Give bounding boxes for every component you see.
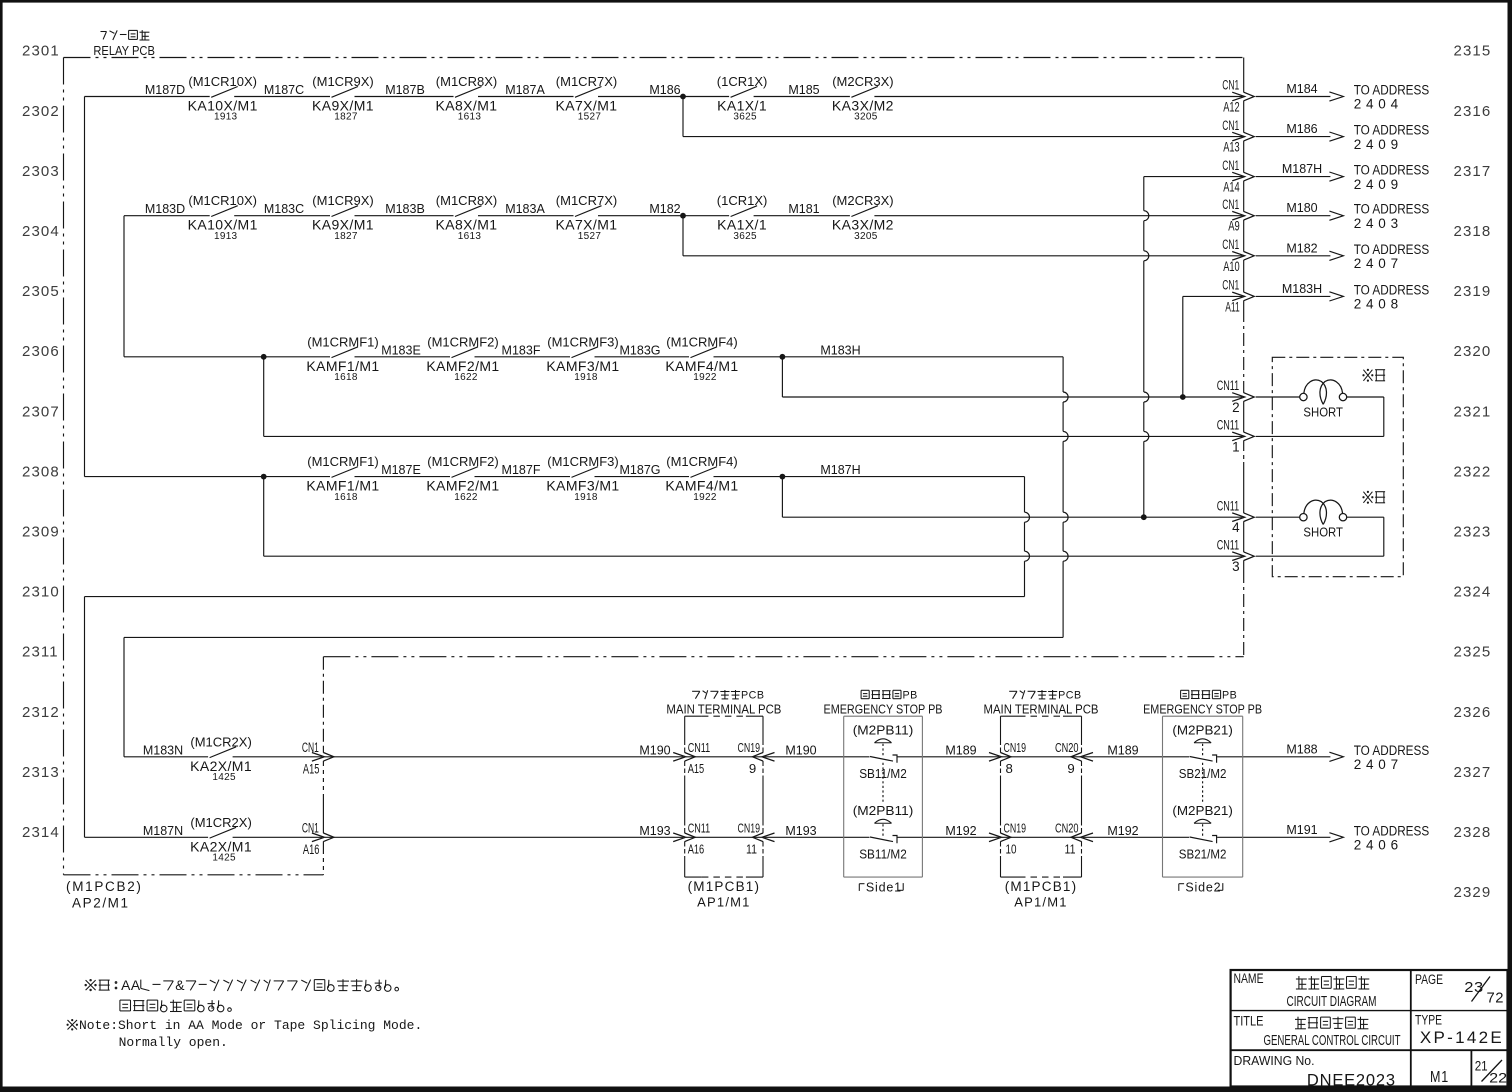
svg-text:(M1PCB1): (M1PCB1) (1005, 879, 1078, 894)
svg-text:M187H: M187H (1282, 162, 1322, 176)
svg-text:MAIN TERMINAL PCB: MAIN TERMINAL PCB (666, 702, 781, 717)
svg-text:CN11: CN11 (1217, 378, 1240, 393)
svg-text:M183N: M183N (143, 743, 183, 757)
svg-text:M191: M191 (1286, 823, 1317, 837)
svg-text:(M1CRMF2): (M1CRMF2) (427, 334, 499, 349)
svg-text:2328: 2328 (1454, 824, 1492, 841)
svg-text:&: & (175, 977, 185, 993)
svg-text:CN19: CN19 (738, 820, 761, 835)
svg-text:2307: 2307 (22, 403, 60, 420)
svg-text:M187C: M187C (264, 83, 304, 97)
svg-text:EMERGENCY STOP PB: EMERGENCY STOP PB (824, 702, 943, 717)
svg-text:2301: 2301 (22, 43, 60, 60)
svg-text:PAGE: PAGE (1415, 972, 1443, 987)
svg-text:M187N: M187N (143, 824, 183, 838)
svg-text:2406: 2406 (1354, 838, 1403, 853)
svg-text:M190: M190 (639, 743, 670, 757)
svg-text:2319: 2319 (1454, 283, 1492, 300)
svg-text:M187H: M187H (820, 463, 860, 477)
svg-text:M1: M1 (1430, 1069, 1449, 1086)
svg-text:2303: 2303 (22, 163, 60, 180)
svg-text:A9: A9 (1228, 219, 1240, 234)
svg-text:PCB: PCB (741, 689, 765, 701)
svg-text:M187B: M187B (385, 83, 425, 97)
svg-text:2403: 2403 (1354, 216, 1403, 231)
svg-text:M182: M182 (1286, 241, 1317, 255)
svg-text:23: 23 (1464, 979, 1484, 996)
svg-text:1425: 1425 (212, 853, 236, 864)
svg-text:TO ADDRESS: TO ADDRESS (1354, 83, 1430, 98)
svg-text:2: 2 (1232, 400, 1240, 415)
svg-text:1618: 1618 (334, 492, 358, 503)
svg-text:M183D: M183D (145, 202, 185, 216)
svg-text:1527: 1527 (578, 231, 602, 242)
svg-text:M183G: M183G (620, 343, 661, 357)
svg-text:2404: 2404 (1354, 97, 1403, 112)
svg-text:M180: M180 (1286, 201, 1317, 215)
svg-text:1922: 1922 (693, 372, 717, 383)
svg-text:1918: 1918 (574, 372, 598, 383)
svg-text:CN11: CN11 (1217, 418, 1240, 433)
svg-text:2315: 2315 (1454, 43, 1492, 60)
svg-text:A14: A14 (1223, 180, 1240, 195)
svg-text:MAIN TERMINAL PCB: MAIN TERMINAL PCB (984, 702, 1099, 717)
svg-text:SB11/M2: SB11/M2 (859, 846, 907, 861)
svg-text:M182: M182 (649, 202, 680, 216)
svg-text:11: 11 (746, 841, 757, 856)
svg-text:M186: M186 (649, 83, 680, 97)
svg-text:(M1CRMF3): (M1CRMF3) (547, 454, 619, 469)
svg-text:1922: 1922 (693, 492, 717, 503)
svg-text:21: 21 (1475, 1057, 1488, 1073)
svg-text:A15: A15 (688, 761, 705, 776)
svg-text:TO ADDRESS: TO ADDRESS (1354, 123, 1430, 138)
svg-text:A16: A16 (303, 842, 320, 857)
svg-text:M189: M189 (1107, 743, 1138, 757)
svg-text:DRAWING No.: DRAWING No. (1234, 1053, 1315, 1068)
svg-text:2304: 2304 (22, 223, 60, 240)
svg-text:AP1/M1: AP1/M1 (697, 895, 750, 910)
svg-text:3625: 3625 (733, 112, 757, 123)
svg-text:A12: A12 (1223, 100, 1240, 115)
svg-text:M181: M181 (788, 202, 819, 216)
svg-text:1913: 1913 (214, 231, 238, 242)
svg-text:1827: 1827 (334, 112, 358, 123)
svg-text:CN1: CN1 (1222, 197, 1239, 212)
svg-text:CN19: CN19 (1004, 820, 1027, 835)
svg-text:CN11: CN11 (688, 740, 711, 755)
svg-text:(M1CR7X): (M1CR7X) (556, 193, 617, 208)
svg-text:3: 3 (1232, 559, 1240, 574)
svg-text:1622: 1622 (454, 372, 478, 383)
svg-text:TO ADDRESS: TO ADDRESS (1354, 282, 1430, 297)
svg-text:M192: M192 (945, 824, 976, 838)
svg-text:(1CR1X): (1CR1X) (717, 74, 768, 89)
svg-text:2409: 2409 (1354, 177, 1403, 192)
svg-text:(M2CR3X): (M2CR3X) (832, 193, 893, 208)
svg-text:(M1CRMF3): (M1CRMF3) (547, 334, 619, 349)
svg-text:M183F: M183F (502, 343, 541, 357)
svg-text:M193: M193 (639, 824, 670, 838)
svg-text:2318: 2318 (1454, 223, 1492, 240)
svg-text:11: 11 (1065, 841, 1076, 856)
svg-text:2329: 2329 (1454, 884, 1492, 901)
svg-text:(M1CRMF4): (M1CRMF4) (666, 454, 738, 469)
svg-text:(M2PB21): (M2PB21) (1172, 723, 1233, 737)
svg-text:2308: 2308 (22, 463, 60, 480)
svg-text:CN1: CN1 (302, 740, 319, 755)
svg-text:M187G: M187G (620, 463, 661, 477)
svg-text:TO ADDRESS: TO ADDRESS (1354, 202, 1430, 217)
svg-text:2309: 2309 (22, 524, 60, 541)
svg-text:2325: 2325 (1454, 644, 1492, 661)
svg-text:(M1CR9X): (M1CR9X) (312, 193, 373, 208)
svg-text:3625: 3625 (733, 231, 757, 242)
svg-text:9: 9 (749, 761, 757, 776)
svg-text:XP-142E: XP-142E (1420, 1028, 1504, 1047)
svg-text:2322: 2322 (1454, 463, 1492, 480)
svg-text:1527: 1527 (578, 112, 602, 123)
svg-text:2312: 2312 (22, 704, 60, 721)
svg-text:(M1CR2X): (M1CR2X) (190, 734, 251, 749)
svg-text:M187E: M187E (381, 463, 421, 477)
svg-text:2302: 2302 (22, 103, 60, 120)
svg-text:TYPE: TYPE (1415, 1013, 1442, 1028)
svg-text:M189: M189 (945, 743, 976, 757)
svg-text:(1CR1X): (1CR1X) (717, 193, 768, 208)
svg-text:2314: 2314 (22, 824, 60, 841)
svg-text:1425: 1425 (212, 772, 236, 783)
svg-text:72: 72 (1487, 990, 1505, 1007)
svg-text:A10: A10 (1223, 259, 1240, 274)
svg-text:(M2CR3X): (M2CR3X) (832, 74, 893, 89)
svg-text:CN1: CN1 (1222, 237, 1239, 252)
svg-text:1918: 1918 (574, 492, 598, 503)
svg-text:1618: 1618 (334, 372, 358, 383)
svg-text:3205: 3205 (854, 231, 878, 242)
svg-text:(M1CRMF2): (M1CRMF2) (427, 454, 499, 469)
svg-text:PB: PB (903, 689, 918, 701)
svg-text:CN11: CN11 (1217, 537, 1240, 552)
svg-text:AA: AA (121, 977, 141, 993)
svg-text:Note:Short in AA Mode or Tape: Note:Short in AA Mode or Tape Splicing M… (79, 1018, 422, 1033)
svg-text:1913: 1913 (214, 112, 238, 123)
svg-text:2326: 2326 (1454, 704, 1492, 721)
svg-text:A15: A15 (303, 761, 320, 776)
svg-text:PCB: PCB (1058, 689, 1082, 701)
svg-text:3205: 3205 (854, 112, 878, 123)
svg-text:2407: 2407 (1354, 757, 1403, 772)
svg-text:2409: 2409 (1354, 137, 1403, 152)
svg-text:TITLE: TITLE (1234, 1014, 1264, 1029)
svg-text:4: 4 (1232, 520, 1240, 535)
svg-text:A11: A11 (1225, 299, 1240, 314)
svg-text:9: 9 (1067, 761, 1075, 776)
svg-text:M184: M184 (1286, 82, 1317, 96)
svg-text:PB: PB (1222, 689, 1237, 701)
svg-text:2317: 2317 (1454, 163, 1492, 180)
svg-text:1827: 1827 (334, 231, 358, 242)
svg-text:M183B: M183B (385, 202, 425, 216)
svg-text:(M1PCB2): (M1PCB2) (66, 879, 143, 894)
svg-text:2323: 2323 (1454, 524, 1492, 541)
svg-text:2407: 2407 (1354, 256, 1403, 271)
svg-text:CN20: CN20 (1055, 740, 1079, 755)
svg-text:2306: 2306 (22, 343, 60, 360)
svg-text:2321: 2321 (1454, 403, 1492, 420)
svg-text:2320: 2320 (1454, 343, 1492, 360)
svg-text:(M1CRMF1): (M1CRMF1) (307, 334, 379, 349)
svg-text:2327: 2327 (1454, 764, 1492, 781)
svg-text:Normally open.: Normally open. (119, 1035, 228, 1050)
svg-text:TO ADDRESS: TO ADDRESS (1354, 242, 1430, 257)
svg-text:2311: 2311 (22, 644, 59, 661)
svg-text:(M1CRMF1): (M1CRMF1) (307, 454, 379, 469)
svg-text:M183C: M183C (264, 202, 304, 216)
svg-text:SHORT: SHORT (1303, 405, 1343, 420)
svg-text:(M1CR2X): (M1CR2X) (190, 815, 251, 830)
svg-text:TO ADDRESS: TO ADDRESS (1354, 163, 1430, 178)
svg-text:(M1CR8X): (M1CR8X) (436, 193, 497, 208)
svg-text:2324: 2324 (1454, 584, 1492, 601)
svg-text:CN11: CN11 (688, 820, 711, 835)
svg-text:M187A: M187A (505, 83, 545, 97)
svg-text:2313: 2313 (22, 764, 60, 781)
svg-text:M188: M188 (1286, 742, 1317, 756)
svg-text:1622: 1622 (454, 492, 478, 503)
svg-text:1613: 1613 (458, 231, 482, 242)
svg-text:RELAY PCB: RELAY PCB (93, 43, 154, 58)
svg-text:1613: 1613 (458, 112, 482, 123)
svg-text:CN1: CN1 (1222, 158, 1239, 173)
svg-text:M193: M193 (785, 824, 816, 838)
svg-text:M183H: M183H (1282, 282, 1322, 296)
svg-text:(M1PCB1): (M1PCB1) (688, 879, 761, 894)
svg-text:(M1CRMF4): (M1CRMF4) (666, 334, 738, 349)
svg-text:8: 8 (1006, 761, 1013, 776)
svg-text:A13: A13 (1223, 140, 1240, 155)
svg-text:CN1: CN1 (1222, 278, 1239, 293)
svg-text:2316: 2316 (1454, 103, 1492, 120)
svg-text:DNEE2023: DNEE2023 (1307, 1072, 1396, 1090)
svg-text:M190: M190 (785, 743, 816, 757)
svg-text:CN20: CN20 (1055, 820, 1079, 835)
svg-text:(M1CR7X): (M1CR7X) (556, 74, 617, 89)
svg-text:AP2/M1: AP2/M1 (72, 896, 130, 911)
svg-text:(M1CR9X): (M1CR9X) (312, 74, 373, 89)
svg-text:CN19: CN19 (1004, 740, 1027, 755)
svg-text:1: 1 (1232, 439, 1240, 454)
svg-text:CN1: CN1 (1222, 78, 1239, 93)
svg-text:TO ADDRESS: TO ADDRESS (1354, 743, 1430, 758)
svg-text:EMERGENCY STOP PB: EMERGENCY STOP PB (1143, 702, 1262, 717)
svg-text:M192: M192 (1107, 824, 1138, 838)
svg-text:M183A: M183A (505, 202, 545, 216)
svg-text:(M2PB21): (M2PB21) (1172, 804, 1233, 818)
svg-text:2305: 2305 (22, 283, 60, 300)
svg-text:M183E: M183E (381, 343, 421, 357)
svg-text:TO ADDRESS: TO ADDRESS (1354, 823, 1430, 838)
svg-text:Side1: Side1 (866, 881, 902, 895)
svg-text:(M1CR8X): (M1CR8X) (436, 74, 497, 89)
svg-text:M187F: M187F (502, 463, 541, 477)
svg-text:Side2: Side2 (1185, 881, 1221, 895)
svg-text:SHORT: SHORT (1303, 525, 1343, 540)
svg-text:2408: 2408 (1354, 297, 1403, 312)
svg-text:CN1: CN1 (302, 820, 319, 835)
svg-text:A16: A16 (688, 841, 705, 856)
svg-text:SB21/M2: SB21/M2 (1179, 846, 1227, 861)
svg-text:CN11: CN11 (1217, 498, 1240, 513)
svg-text:CN1: CN1 (1222, 118, 1239, 133)
svg-text:NAME: NAME (1234, 971, 1264, 986)
svg-text:AP1/M1: AP1/M1 (1014, 895, 1067, 910)
svg-text:CN19: CN19 (738, 740, 761, 755)
svg-text:10: 10 (1006, 841, 1017, 856)
svg-text:CIRCUIT DIAGRAM: CIRCUIT DIAGRAM (1287, 993, 1377, 1010)
svg-text:(M1CR10X): (M1CR10X) (188, 74, 257, 89)
svg-text:(M1CR10X): (M1CR10X) (188, 193, 257, 208)
svg-text:GENERAL CONTROL CIRCUIT: GENERAL CONTROL CIRCUIT (1264, 1033, 1401, 1049)
svg-text:(M2PB11): (M2PB11) (853, 723, 914, 737)
svg-text:M187D: M187D (145, 83, 185, 97)
svg-text:M185: M185 (788, 83, 819, 97)
svg-text:22: 22 (1489, 1070, 1507, 1086)
svg-text:2310: 2310 (22, 584, 60, 601)
svg-text:M183H: M183H (820, 343, 860, 357)
svg-text:M186: M186 (1286, 122, 1317, 136)
svg-text:(M2PB11): (M2PB11) (853, 804, 914, 818)
